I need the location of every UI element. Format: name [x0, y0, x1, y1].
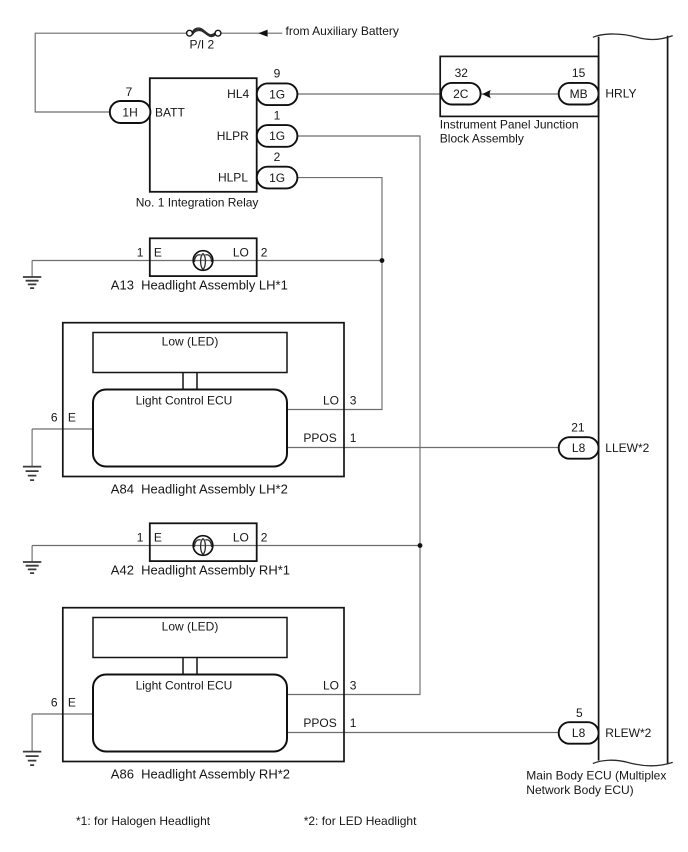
svg-text:Low (LED): Low (LED): [162, 334, 219, 348]
svg-text:HRLY: HRLY: [605, 87, 636, 101]
svg-text:1: 1: [350, 716, 357, 730]
svg-text:HL4: HL4: [227, 87, 249, 101]
svg-text:LO: LO: [233, 530, 249, 544]
svg-text:Light Control ECU: Light Control ECU: [136, 678, 233, 692]
svg-text:MB: MB: [570, 87, 588, 101]
svg-text:15: 15: [572, 66, 586, 80]
svg-text:1G: 1G: [269, 171, 285, 185]
svg-text:*2: for LED Headlight: *2: for LED Headlight: [304, 814, 417, 828]
svg-text:Network Body ECU): Network Body ECU): [526, 783, 633, 797]
svg-text:5: 5: [576, 706, 583, 720]
svg-text:1: 1: [274, 108, 281, 122]
svg-text:HLPR: HLPR: [217, 129, 249, 143]
svg-text:Block Assembly: Block Assembly: [440, 132, 524, 146]
svg-text:LLEW*2: LLEW*2: [605, 441, 649, 455]
svg-text:1: 1: [350, 431, 357, 445]
svg-text:3: 3: [350, 393, 357, 407]
svg-text:21: 21: [571, 420, 585, 434]
svg-text:E: E: [154, 530, 162, 544]
svg-text:PPOS: PPOS: [303, 716, 336, 730]
svg-text:E: E: [68, 410, 76, 424]
svg-text:32: 32: [455, 66, 469, 80]
svg-text:A42 Headlight Assembly RH*1: A42 Headlight Assembly RH*1: [111, 563, 290, 578]
svg-text:from Auxiliary Battery: from Auxiliary Battery: [286, 24, 399, 38]
svg-text:1: 1: [137, 530, 144, 544]
svg-text:A84 Headlight Assembly LH*2: A84 Headlight Assembly LH*2: [111, 482, 288, 497]
svg-text:BATT: BATT: [155, 105, 185, 119]
svg-text:Instrument Panel Junction: Instrument Panel Junction: [440, 117, 579, 131]
svg-text:2: 2: [261, 530, 268, 544]
svg-text:LO: LO: [233, 245, 249, 259]
svg-text:3: 3: [350, 678, 357, 692]
svg-text:PPOS: PPOS: [303, 431, 336, 445]
svg-text:6: 6: [51, 695, 58, 709]
svg-text:1G: 1G: [269, 88, 285, 102]
svg-text:A13 Headlight Assembly LH*1: A13 Headlight Assembly LH*1: [111, 278, 288, 293]
svg-text:Main Body ECU (Multiplex: Main Body ECU (Multiplex: [526, 768, 666, 782]
svg-text:No. 1 Integration Relay: No. 1 Integration Relay: [136, 195, 259, 209]
svg-text:1G: 1G: [269, 129, 285, 143]
svg-text:LO: LO: [323, 678, 339, 692]
svg-text:L8: L8: [572, 726, 586, 740]
svg-text:L8: L8: [572, 441, 586, 455]
svg-text:HLPL: HLPL: [218, 171, 248, 185]
svg-text:RLEW*2: RLEW*2: [605, 726, 651, 740]
svg-text:1: 1: [137, 245, 144, 259]
svg-text:2: 2: [261, 245, 268, 259]
svg-text:E: E: [154, 245, 162, 259]
svg-text:7: 7: [126, 85, 133, 99]
svg-text:2: 2: [274, 150, 281, 164]
svg-text:2C: 2C: [453, 87, 469, 101]
svg-text:1H: 1H: [122, 105, 137, 119]
svg-text:Light Control ECU: Light Control ECU: [136, 393, 233, 407]
svg-text:9: 9: [274, 66, 281, 80]
svg-text:A86 Headlight Assembly RH*2: A86 Headlight Assembly RH*2: [111, 767, 290, 782]
svg-text:*1: for Halogen Headlight: *1: for Halogen Headlight: [76, 814, 211, 828]
svg-text:P/I 2: P/I 2: [190, 38, 215, 52]
svg-text:6: 6: [51, 410, 58, 424]
svg-text:LO: LO: [323, 393, 339, 407]
svg-text:E: E: [68, 695, 76, 709]
svg-text:Low (LED): Low (LED): [162, 619, 219, 633]
